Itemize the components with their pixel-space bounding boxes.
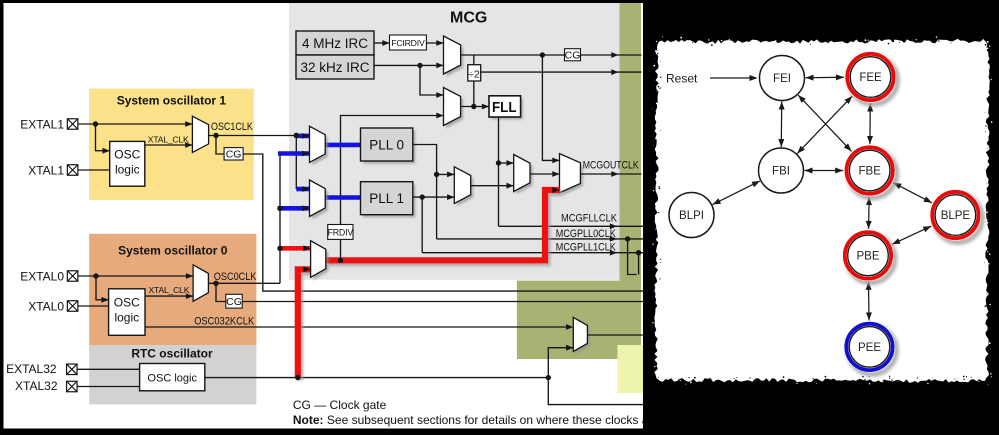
svg-text:BLPI: BLPI [679, 210, 704, 222]
svg-text:PBE: PBE [856, 251, 879, 263]
svg-text:CG: CG [565, 49, 581, 61]
svg-text:MCGOUTCLK: MCGOUTCLK [583, 160, 640, 172]
svg-text:FBI: FBI [772, 166, 790, 178]
svg-text:PLL 1: PLL 1 [369, 191, 404, 206]
svg-text:MCGPLL1CLK: MCGPLL1CLK [556, 242, 617, 254]
svg-text:4 MHz IRC: 4 MHz IRC [302, 36, 368, 51]
svg-text:Reset: Reset [666, 71, 698, 85]
svg-text:XTAL0: XTAL0 [28, 300, 64, 314]
svg-text:OSC0CLK: OSC0CLK [214, 271, 257, 283]
svg-text:÷2: ÷2 [468, 68, 480, 80]
svg-text:MCGFLLCLK: MCGFLLCLK [561, 213, 618, 225]
svg-text:32 kHz IRC: 32 kHz IRC [300, 60, 369, 75]
svg-text:FEI: FEI [773, 73, 791, 85]
svg-text:XTAL32: XTAL32 [15, 379, 58, 393]
svg-text:Note: See subsequent sections: Note: See subsequent sections for detail… [293, 413, 692, 427]
svg-text:FLL: FLL [492, 99, 517, 116]
svg-text:MCG: MCG [450, 10, 487, 27]
svg-text:logic: logic [114, 311, 139, 325]
svg-text:OSC1CLK: OSC1CLK [211, 121, 253, 133]
svg-text:XTAL_CLK: XTAL_CLK [148, 134, 189, 144]
svg-text:PEE: PEE [858, 342, 881, 354]
svg-text:FCIRDIV: FCIRDIV [391, 38, 425, 48]
svg-text:OSC logic: OSC logic [147, 373, 197, 385]
svg-text:logic: logic [115, 163, 140, 177]
svg-text:FBE: FBE [859, 166, 882, 178]
svg-text:OSC032KCLK: OSC032KCLK [194, 315, 255, 327]
svg-text:MCGPLL0CLK: MCGPLL0CLK [556, 228, 617, 240]
svg-text:EXTAL0: EXTAL0 [20, 270, 64, 284]
svg-text:EXTAL1: EXTAL1 [20, 118, 64, 132]
svg-text:BLPE: BLPE [941, 210, 971, 222]
svg-text:System oscillator 1: System oscillator 1 [117, 94, 227, 108]
svg-text:OSC: OSC [114, 148, 140, 162]
svg-text:RTC oscillator: RTC oscillator [131, 346, 213, 360]
svg-text:CG — Clock gate: CG — Clock gate [293, 398, 387, 412]
svg-text:XTAL1: XTAL1 [28, 164, 64, 178]
svg-text:XTAL_CLK: XTAL_CLK [149, 285, 190, 295]
svg-text:System oscillator 0: System oscillator 0 [118, 244, 228, 258]
svg-text:OSC: OSC [114, 296, 140, 310]
svg-text:PLL 0: PLL 0 [369, 138, 404, 153]
svg-text:EXTAL32: EXTAL32 [6, 362, 57, 376]
svg-text:CG: CG [226, 296, 242, 308]
svg-text:FRDIV: FRDIV [328, 228, 354, 238]
svg-text:CG: CG [226, 149, 242, 161]
svg-text:FEE: FEE [859, 72, 882, 84]
